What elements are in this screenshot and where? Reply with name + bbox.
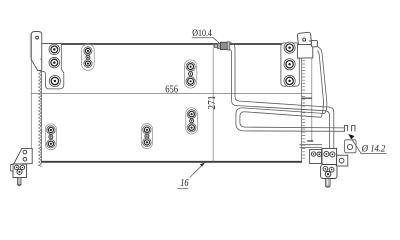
pipe clamp (311, 40, 317, 46)
port circle top-left 1 (49, 44, 60, 55)
svg-text:271: 271 (207, 96, 218, 110)
fitting posts Ø14.2 (344, 126, 347, 131)
bracket top-left (31, 32, 42, 71)
bracket top-right tab (297, 32, 311, 46)
dimension line 656 (31, 92, 312, 94)
bottom-left stem (18, 178, 21, 185)
stadium fitting bottom A (45, 124, 56, 150)
valve lower flange (321, 165, 337, 179)
small plate right (345, 140, 356, 153)
valve main block (322, 148, 337, 164)
port circle right 3 (284, 75, 295, 86)
bracket top-left shadow (30, 34, 32, 59)
pipe down from top-right bracket (317, 47, 326, 114)
port circle right 1 (284, 42, 295, 53)
svg-text:Ø10.4: Ø10.4 (192, 29, 212, 39)
stadium fitting top B (184, 60, 196, 88)
dimension line 271 (212, 44, 214, 162)
core left edge wire (41, 44, 43, 162)
port circle top-left 3 (49, 75, 60, 86)
svg-text:16: 16 (180, 177, 189, 189)
bracket top-right hole (303, 38, 306, 41)
stadium fitting top A (82, 44, 95, 70)
right fin tick marks (302, 58, 306, 159)
extension line right (311, 58, 313, 142)
port circle top-left 2 (49, 57, 60, 68)
extension line left (30, 45, 32, 149)
core bottom header line (41, 161, 302, 163)
left inlet plate (42, 44, 64, 89)
core right edge wire (301, 44, 303, 162)
svg-text:Ø 14.2: Ø 14.2 (361, 145, 386, 155)
port circle right 2 (284, 59, 295, 70)
pipe fitting Ø10.4 (215, 44, 218, 48)
bracket hole (36, 36, 39, 39)
dash mark right lower (307, 140, 313, 142)
left fin zigzag edge (39, 69, 42, 167)
pipe into valve from left (300, 145, 323, 148)
label Ø14.2 with leader arrow (352, 140, 361, 154)
right port plate (281, 43, 299, 86)
bottom-left valve block (13, 164, 27, 178)
bottom-left bracket (14, 148, 33, 164)
core top header line (43, 43, 298, 45)
pipe run 2 with U-turn (236, 108, 345, 131)
stadium fitting bottom B (141, 124, 152, 149)
pipe run 1 (235, 96, 334, 148)
svg-text:656: 656 (165, 85, 178, 96)
bracket top-right body (297, 45, 312, 59)
valve block bracket left (310, 150, 322, 164)
valve stem (326, 179, 331, 187)
pipe elbow down from fitting (230, 43, 235, 97)
dash mark right upper (302, 97, 312, 99)
valve side block (337, 155, 348, 166)
stadium fitting bottom C (186, 108, 198, 134)
